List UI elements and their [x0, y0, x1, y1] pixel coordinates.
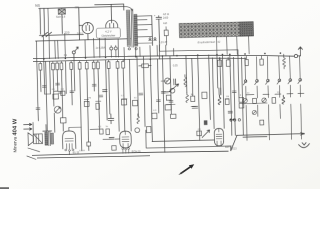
- wire v8: [56, 70, 59, 92]
- wire drop 15 to bus: [149, 46, 151, 60]
- wire dial feed 2: [226, 37, 228, 55]
- wire sw mid 5: [289, 85, 291, 97]
- wire AVC link: [243, 136, 267, 139]
- wire v3: [43, 59, 46, 94]
- resistor Rb6: [78, 61, 81, 69]
- resistor Rb10: [107, 60, 110, 68]
- wire antenna riser: [297, 49, 300, 56]
- wire link 8: [191, 105, 196, 107]
- loudspeaker LS1 magnet: [33, 134, 42, 144]
- wire mains lead E: [47, 8, 50, 34]
- wire v39: [233, 57, 235, 135]
- wire drop 8 to bus: [93, 38, 95, 57]
- svg-text:4,2V 4V: 4,2V 4V: [159, 42, 168, 44]
- switch row circles: [230, 119, 241, 122]
- pencil arrow annotation: [179, 164, 194, 174]
- svg-text:2M: 2M: [88, 97, 91, 99]
- wire v13: [73, 58, 76, 91]
- wire v2: [39, 70, 42, 92]
- capacitor C30: [174, 79, 176, 85]
- wire link 19: [69, 126, 81, 128]
- svg-text:Sich 0,6: Sich 0,6: [56, 15, 66, 19]
- resistor Rb2: [51, 62, 54, 70]
- fuse F1: [58, 8, 65, 14]
- wire V1 cathode lead: [79, 25, 88, 40]
- coil L6: [218, 95, 221, 104]
- wire v4: [46, 62, 48, 131]
- wire link 3: [84, 99, 88, 101]
- resistor R21: [60, 118, 66, 123]
- trimmer CT1: [164, 78, 170, 84]
- junction 8: [162, 55, 164, 57]
- junction 10: [197, 54, 199, 56]
- capacitor C10: [245, 56, 249, 65]
- wire v22: [123, 68, 125, 131]
- trimmer CT5: [252, 110, 256, 114]
- wire v40: [238, 54, 239, 97]
- wire earth run: [236, 134, 303, 136]
- capacitor C20: [58, 91, 62, 93]
- svg-text:220: 220: [64, 31, 69, 35]
- wire heater link: [152, 140, 214, 142]
- junction 9: [176, 55, 178, 57]
- junction 1: [43, 58, 45, 60]
- label box rectifier: [96, 28, 120, 39]
- wire sw feed 4: [278, 56, 281, 79]
- resistor R50: [100, 129, 104, 134]
- wire v28: [162, 56, 164, 152]
- wire dial feed 3: [236, 36, 238, 54]
- wire sw drop 1: [245, 105, 248, 140]
- wire T1 tap 2: [137, 19, 147, 21]
- wire v29: [170, 56, 171, 114]
- resistor R24: [84, 101, 89, 106]
- wire drop 3 to bus: [48, 35, 51, 58]
- capacitor C1 electrolytic: [154, 13, 162, 21]
- wire sw drop 5: [290, 104, 293, 139]
- wire C1 down: [158, 21, 161, 45]
- switch contact SA4: [277, 79, 281, 84]
- tube V4 pins: [122, 148, 130, 150]
- wire V3 anode: [68, 128, 71, 155]
- wire sw drop 3: [267, 105, 270, 140]
- wire HT riser: [151, 16, 154, 46]
- resistor R1: [164, 30, 168, 36]
- svg-text:NS: NS: [35, 4, 41, 8]
- tube V4 electrodes: [122, 131, 129, 147]
- wire drop 17 to bus: [158, 45, 160, 59]
- coil L4 IF: [186, 93, 189, 103]
- phono input arrow 1: [24, 123, 32, 126]
- wire bottom rail 2 (long): [32, 151, 229, 155]
- switch contact SA6: [298, 79, 302, 84]
- wire drop 4 to bus: [54, 41, 56, 59]
- wire v25: [143, 56, 145, 126]
- wire speaker lead 2: [27, 156, 36, 160]
- wire drop 6 to bus: [64, 34, 67, 59]
- wire v32: [198, 55, 200, 140]
- wire link 2: [54, 90, 58, 92]
- wire T1 tap 5: [137, 36, 152, 38]
- wire drop 1 to bus: [35, 41, 37, 59]
- wire fuse to switch: [61, 14, 63, 33]
- junction 12: [229, 54, 231, 56]
- tube V2 envelope: [106, 20, 118, 32]
- wire drop 18 to bus: [165, 45, 167, 56]
- transformer T1 secondary winding: [134, 14, 138, 46]
- resistor R52: [146, 127, 151, 133]
- wire mains lead L: [39, 8, 42, 34]
- resistor Rb11: [116, 60, 119, 68]
- tube V1 AZ11 envelope: [82, 22, 93, 33]
- wire sw feed 1: [244, 57, 247, 80]
- antenna terminal X1: [294, 54, 297, 57]
- wire link 13: [275, 93, 281, 95]
- wire v31: [191, 58, 194, 96]
- resistor R22: [61, 91, 65, 95]
- wire v17: [93, 69, 96, 91]
- switch S1 pole A: [42, 32, 48, 37]
- antenna arrow: [298, 47, 302, 50]
- transformer bottom terminals: [148, 38, 156, 41]
- phono input arrow 2: [24, 128, 32, 131]
- capacitor C12: [87, 142, 91, 146]
- wire link 10: [161, 80, 167, 82]
- junction 2: [65, 58, 67, 60]
- wire link 18: [115, 138, 120, 140]
- svg-text:Empfindlichkeit · 42: Empfindlichkeit · 42: [198, 40, 221, 45]
- wire sw feed 3: [266, 56, 269, 79]
- junction 7: [150, 58, 152, 60]
- wire T1 tap 3: [137, 24, 152, 26]
- wire drop 9 to bus: [98, 38, 100, 57]
- wire V2 top lead: [110, 4, 112, 20]
- wire bottom rail 1: [146, 128, 231, 148]
- wire bus A (chassis rail): [33, 55, 294, 58]
- wire link 16: [242, 102, 267, 105]
- resistor Rb1: [39, 62, 42, 70]
- tube V3 pins: [65, 149, 74, 152]
- capacitor C31: [161, 92, 165, 93]
- wire v11: [64, 61, 67, 93]
- wire T1 tap 4: [137, 29, 147, 31]
- trimmer CT2: [170, 88, 175, 93]
- wire v19: [106, 60, 107, 120]
- coil L2: [137, 114, 140, 124]
- resistor Rb12: [122, 60, 125, 68]
- junction 14: [264, 53, 266, 55]
- wire v18: [98, 69, 99, 129]
- capacitor plates 9: [232, 91, 236, 93]
- switch contact SA5: [288, 79, 292, 84]
- tube V4 ECH11 envelope: [120, 131, 132, 148]
- wire speaker lead 1: [28, 148, 40, 152]
- wire drop 12 to bus: [123, 47, 125, 59]
- junction dots: [230, 119, 235, 121]
- svg-text:4-500: 4-500: [79, 150, 85, 152]
- wire dial bottom run: [160, 45, 239, 56]
- junction 4: [105, 57, 107, 59]
- wire R1 down: [165, 27, 167, 45]
- wire T1 tap 6: [138, 42, 153, 44]
- capacitor C34: [228, 111, 232, 113]
- capacitor plates 5: [99, 95, 103, 97]
- tube V1 anode plates: [86, 22, 90, 30]
- tube V5 EBF11 envelope: [214, 128, 224, 146]
- tube V5 electrodes: [216, 128, 222, 145]
- ground hook: [299, 143, 310, 148]
- wire sw mid 1: [245, 86, 247, 98]
- wire sw feed 6: [299, 56, 302, 79]
- wire v36: [219, 58, 222, 95]
- wire link 14: [287, 93, 293, 95]
- wire link 1: [45, 93, 51, 95]
- wire heater rail: [36, 39, 131, 41]
- resistor R27: [152, 113, 157, 119]
- junction 6: [135, 56, 137, 58]
- wire v38: [230, 54, 232, 135]
- switch S1 pole B: [46, 32, 52, 37]
- coil L5: [282, 95, 285, 104]
- wire mains rail 2: [95, 4, 124, 11]
- resistor R31: [165, 105, 171, 110]
- wire link 20: [90, 128, 99, 130]
- wire v9: [62, 70, 63, 118]
- resistor R33: [191, 96, 195, 101]
- wire v26: [150, 59, 152, 141]
- wire v21: [118, 68, 120, 131]
- resistor R20: [53, 94, 59, 99]
- transformer T1 core: [131, 9, 134, 47]
- capacitor plates 4: [92, 84, 96, 86]
- wire drop 5 to bus: [57, 40, 59, 58]
- wire v1: [37, 59, 39, 121]
- wire v14: [80, 69, 82, 151]
- junction 13: [244, 53, 246, 55]
- wire v41: [241, 57, 243, 135]
- junction 3: [85, 57, 87, 59]
- wire sw drop 4: [279, 104, 281, 118]
- capacitor plates 2: [56, 83, 60, 85]
- dial lamp E1: [110, 47, 113, 50]
- wire mains lead N: [43, 8, 46, 34]
- wire rail curve: [124, 6, 133, 11]
- resistor R32: [171, 114, 176, 118]
- resistor R42: [291, 97, 295, 102]
- capacitor C11: [260, 56, 264, 65]
- wire V4 pin stubs: [123, 149, 129, 153]
- junction 11: [216, 54, 218, 56]
- svg-text:2x50: 2x50: [163, 17, 169, 20]
- aerial terminal mid: [72, 47, 78, 58]
- resistor R40: [253, 98, 257, 103]
- wire v5: [49, 62, 52, 94]
- wire T2 top: [43, 124, 52, 132]
- wire drop 2 to bus: [42, 35, 45, 58]
- wire v33: [209, 55, 211, 120]
- potentiometer P1: [54, 106, 61, 113]
- capacitor plates 7: [156, 100, 160, 102]
- wire link 17: [103, 138, 111, 140]
- wire v27: [157, 59, 158, 113]
- wire sw mid 3: [267, 86, 269, 98]
- capacitor C35 blob: [204, 120, 208, 125]
- svg-text:10023: 10023: [230, 149, 237, 151]
- wire rail joint: [230, 146, 232, 151]
- wire sw mid 2: [256, 86, 258, 98]
- resistor R26: [133, 100, 138, 106]
- wire sw feed 2: [255, 57, 258, 80]
- coil L1: [283, 54, 286, 69]
- earth arrowhead: [300, 132, 303, 135]
- grid arrow V5: [202, 130, 210, 138]
- wire drop 19 to bus: [173, 48, 175, 55]
- wire v23: [129, 60, 131, 131]
- capacitor plates 1: [42, 86, 46, 88]
- resistor Rb8: [92, 61, 95, 69]
- transformer T1 primary winding: [126, 10, 130, 46]
- wire v15: [87, 69, 89, 142]
- variable cap arrow: [169, 84, 179, 92]
- wire v7: [53, 113, 55, 132]
- wire switch row: [39, 34, 83, 35]
- wire bus B: [33, 58, 246, 62]
- wire dial feed 4: [248, 36, 250, 54]
- wire v35: [216, 55, 219, 88]
- switch contact SA2: [255, 80, 259, 85]
- svg-text:0,05: 0,05: [173, 64, 178, 67]
- trimmer CT3: [243, 98, 248, 103]
- wire lamp leads: [111, 45, 116, 57]
- resistor Rb9: [96, 61, 99, 69]
- switch contact SA1: [243, 80, 247, 85]
- wire v37: [222, 55, 224, 129]
- junction 15: [280, 52, 282, 54]
- wire sw mid 4: [278, 85, 280, 97]
- wire phono riser: [32, 122, 34, 133]
- svg-text:2x0,1: 2x0,1: [77, 32, 84, 35]
- capacitor C21: [103, 90, 107, 92]
- tube V3 EL11 envelope: [62, 131, 75, 149]
- capacitor plates 3: [70, 91, 74, 93]
- wire link 5: [121, 98, 126, 100]
- capacitor plates 6: [139, 93, 143, 95]
- wire link 12: [263, 93, 269, 95]
- trimmer CT4: [262, 98, 267, 103]
- switch contact SA3: [265, 79, 269, 84]
- capacitor C50: [109, 137, 114, 139]
- wire v24: [137, 57, 138, 117]
- wire link 4: [96, 100, 101, 102]
- resistor R35: [197, 131, 202, 136]
- resistor R38: [239, 103, 244, 108]
- wire v12: [70, 69, 73, 105]
- resistor R11: [218, 57, 222, 66]
- wire v16: [88, 146, 90, 150]
- resistor Rb3: [56, 62, 59, 70]
- wire drop 16 to bus: [156, 45, 158, 56]
- wire earth diagonal: [230, 136, 237, 151]
- resistor R34: [202, 92, 207, 98]
- wire sw feed 5: [289, 56, 292, 79]
- junction 17: [222, 54, 224, 56]
- wire drop 7 to bus: [84, 40, 86, 58]
- resistor R51: [106, 129, 110, 135]
- resistor R25: [121, 99, 126, 105]
- resistor R12: [226, 57, 230, 66]
- capacitor C32: [192, 106, 198, 108]
- wire v20: [109, 68, 110, 114]
- wire v10: [62, 123, 64, 131]
- resistor R23: [96, 103, 100, 109]
- wire link 7: [166, 103, 175, 105]
- wire drop 10 to bus: [104, 38, 106, 57]
- wire sw drop 2: [257, 105, 259, 116]
- resistor R30: [166, 95, 171, 100]
- coil L3 osc: [184, 75, 187, 87]
- junction 5: [124, 59, 126, 61]
- wire T1 tap 1: [137, 15, 152, 17]
- wire sw mid 6: [299, 85, 301, 97]
- wire v6: [52, 70, 55, 106]
- tube V2 electrodes: [110, 20, 114, 29]
- wire primary riser: [78, 8, 81, 40]
- capacitor plates 10: [36, 108, 40, 110]
- capacitor C33: [219, 88, 221, 95]
- svg-text:4,2 V: 4,2 V: [105, 29, 112, 33]
- resistor Rb7: [85, 61, 88, 69]
- terminal dots under T1: [128, 48, 137, 50]
- trimmer CT6: [135, 128, 140, 133]
- wire sw drop 6: [300, 104, 303, 139]
- wire drop 13 to bus: [135, 47, 137, 56]
- resistor R43: [260, 120, 264, 125]
- junction 16: [303, 133, 305, 135]
- capacitor plates 8: [169, 100, 173, 102]
- wire mains top rail: [39, 6, 124, 8]
- svg-text:Gleichrichter: Gleichrichter: [101, 34, 115, 37]
- scan edge mark: [0, 187, 9, 189]
- wire drop 14 to bus: [139, 47, 141, 56]
- resistor Rb5: [70, 61, 73, 69]
- svg-text:2x 0,35A: 2x 0,35A: [96, 47, 106, 50]
- dial scale glass: [179, 22, 253, 38]
- capacitor C22: [108, 114, 114, 124]
- wire link 6: [165, 91, 171, 93]
- wire v30: [185, 55, 188, 92]
- svg-text:EBF 11: EBF 11: [225, 146, 234, 149]
- wire link 9: [225, 98, 229, 100]
- capacitor C51 small box: [112, 146, 117, 151]
- loudspeaker LS1 cone: [28, 133, 33, 146]
- dial lamp E2: [114, 47, 117, 50]
- resistor R10 horizontal: [139, 64, 152, 68]
- wire link 15: [298, 92, 304, 94]
- transformer T2 output: [45, 131, 54, 145]
- wire dial feed 1: [215, 37, 217, 55]
- tube V3 electrodes: [65, 138, 74, 149]
- svg-text:1M: 1M: [226, 96, 229, 98]
- resistor R36: [225, 99, 229, 104]
- resistor R37: [239, 98, 244, 103]
- wire bottom rail 3: [37, 156, 150, 158]
- wire V5 pin stubs: [217, 145, 221, 148]
- wire link 11: [246, 94, 254, 96]
- wire drop 11 to bus: [117, 39, 119, 57]
- resistor R41: [272, 98, 276, 104]
- wire v34: [212, 58, 214, 129]
- resistor Rb4: [60, 61, 63, 69]
